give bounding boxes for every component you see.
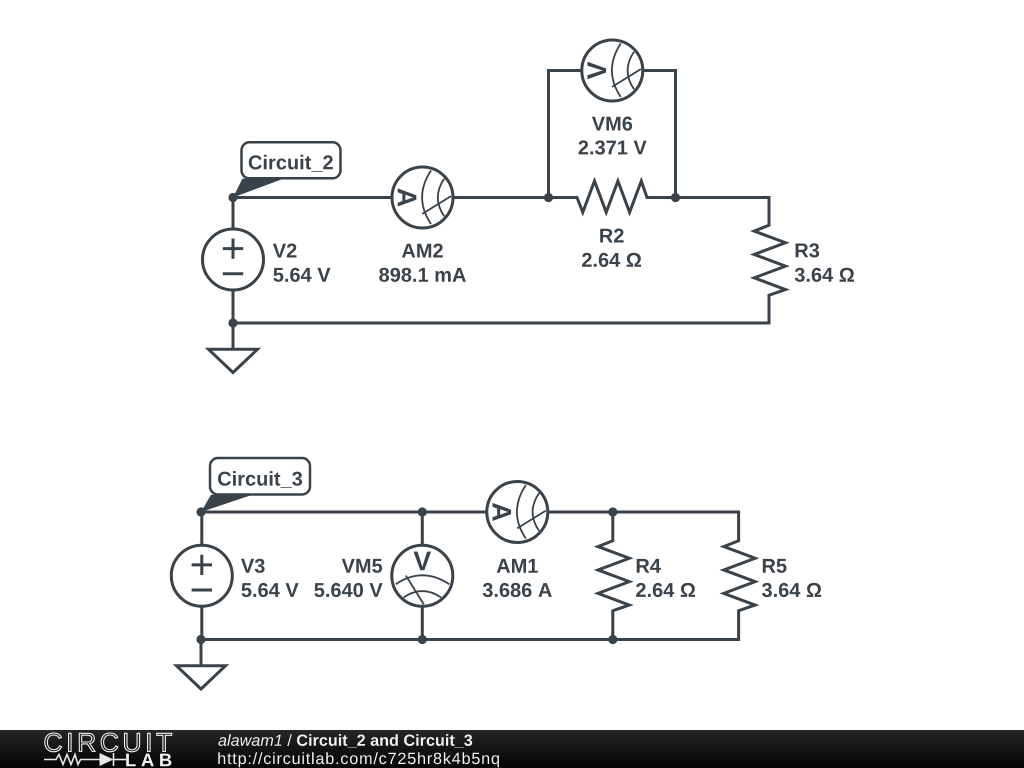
junction VM5 bottom <box>418 635 427 644</box>
voltage source V2 <box>203 198 264 322</box>
CircuitLab logo diode triangle <box>100 753 114 766</box>
voltage source V3 <box>171 512 232 640</box>
junction node Circuit_3 top-left <box>196 507 205 516</box>
label V3 name <box>241 559 265 573</box>
label R3 name <box>796 243 820 257</box>
label AM2 name <box>402 244 443 258</box>
wire VM5 branch <box>421 512 424 640</box>
ground GND Circuit_2 <box>209 323 258 373</box>
CircuitLab logo wordmark CIRCUIT <box>45 733 172 752</box>
label AM2 value <box>379 268 466 282</box>
wire VM6 right branch <box>643 71 676 198</box>
CircuitLab logo resistor-diode glyph <box>44 753 126 766</box>
footer url line <box>218 752 499 767</box>
ground GND Circuit_3 <box>177 640 226 690</box>
CircuitLab logo wordmark LAB <box>126 754 171 767</box>
junction R4 top <box>608 507 617 516</box>
label VM6 name <box>592 117 632 131</box>
junction node Circuit_2 top-left <box>228 193 237 202</box>
label R4 name <box>637 559 661 573</box>
resistor R2 <box>549 181 676 212</box>
ammeter AM1 <box>487 482 548 543</box>
label V2 value <box>273 268 330 282</box>
wire bottom rail Circuit_2 <box>233 322 771 325</box>
label R3 value <box>795 268 854 282</box>
junction R4 bottom <box>608 635 617 644</box>
junction VM6 right <box>671 193 680 202</box>
junction Circuit_3 bottom-left <box>196 635 205 644</box>
label R5 value <box>762 583 821 597</box>
voltmeter VM5 <box>392 545 453 606</box>
label VM6 value <box>579 140 647 154</box>
label R2 value <box>582 253 641 267</box>
label V2 name <box>273 244 297 258</box>
junction VM6 left <box>544 193 553 202</box>
label R2 name <box>600 229 623 243</box>
resistor R4 <box>598 512 629 640</box>
label AM1 value <box>483 583 552 597</box>
junction VM5 top <box>418 507 427 516</box>
label R5 name <box>763 559 787 573</box>
label AM1 name <box>497 559 538 573</box>
ammeter AM2 <box>392 167 453 228</box>
label V3 value <box>242 583 299 597</box>
node label balloon Circuit_3 <box>201 458 310 512</box>
footer bar <box>0 730 1024 768</box>
label R4 value <box>636 583 695 597</box>
resistor R5 <box>724 512 755 640</box>
label VM5 name <box>342 559 382 573</box>
footer title line <box>218 734 472 748</box>
label VM5 value <box>314 583 382 597</box>
junction Circuit_2 bottom-left <box>228 318 237 327</box>
wire top rail Circuit_2 left segment <box>233 196 549 199</box>
wire bottom rail Circuit_3 <box>201 638 740 641</box>
wire VM6 left branch <box>549 71 582 198</box>
wire top rail Circuit_3 <box>201 511 740 514</box>
resistor R3 <box>754 197 785 324</box>
node label balloon Circuit_2 <box>233 142 341 197</box>
wire top rail Circuit_2 right segment <box>676 196 771 199</box>
voltmeter VM6 <box>582 40 643 101</box>
